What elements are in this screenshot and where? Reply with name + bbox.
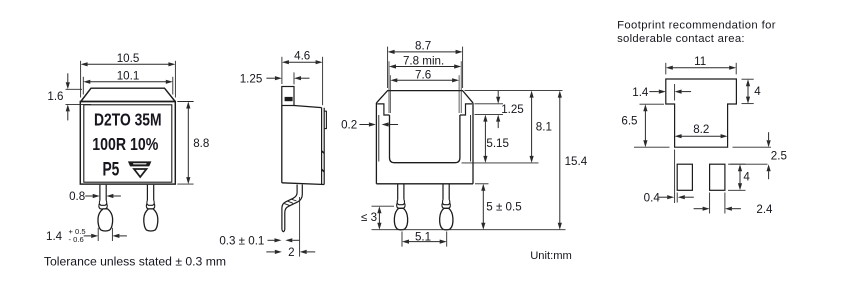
svg-text:15.4: 15.4 — [565, 155, 588, 168]
back left lead — [397, 185, 399, 200]
dimension 2.4 — [709, 193, 711, 214]
svg-text:D2TO 35M: D2TO 35M — [94, 109, 162, 129]
svg-text:8.1: 8.1 — [536, 120, 552, 133]
svg-text:P5: P5 — [102, 159, 119, 181]
svg-text:5.15: 5.15 — [486, 137, 509, 150]
svg-text:1.25: 1.25 — [240, 72, 263, 85]
back left lead crimp — [397, 200, 404, 205]
front view: tab bottom edge — [81, 101, 175, 103]
svg-text:1.4: 1.4 — [46, 230, 63, 243]
front view: body inner rectangle (10.1 wide) — [84, 105, 172, 182]
svg-text:5 ± 0.5: 5 ± 0.5 — [486, 201, 521, 214]
cavity bottom extension line — [462, 162, 539, 164]
body bottom right extension line — [475, 183, 489, 185]
side view: right edge tick marks — [322, 151, 325, 153]
dimension 11 — [665, 63, 667, 75]
back view: left 0.2 wall line — [378, 115, 380, 162]
dimension 2 side — [275, 250, 282, 254]
dimension 5 ± 0.5 — [482, 190, 484, 224]
front right lead crimp — [147, 200, 154, 205]
dimension 0.4 — [674, 150, 676, 204]
side view: back tab protrusion — [324, 111, 326, 128]
front view: body outer rectangle (10.5 wide) — [80, 102, 175, 185]
side view: tab dark mark — [285, 97, 293, 101]
dimension 4 footprint tab — [742, 78, 754, 80]
svg-text:0.8: 0.8 — [69, 190, 85, 203]
svg-text:10.1: 10.1 — [117, 69, 140, 82]
back view: body outline — [376, 91, 473, 103]
dimension 10.5 — [80, 61, 82, 98]
dimension 0.8 — [93, 194, 100, 198]
dimension 4.6 — [281, 57, 283, 84]
dimension 2.5 — [733, 146, 772, 148]
svg-text:11: 11 — [694, 55, 706, 68]
svg-text:5.1: 5.1 — [415, 230, 431, 243]
svg-text:7.8 min.: 7.8 min. — [403, 54, 444, 67]
back view right side extension lines — [465, 90, 563, 92]
svg-text:100R 10%: 100R 10% — [92, 134, 158, 154]
svg-text:2.4: 2.4 — [756, 203, 773, 216]
Vishay logo bar — [128, 161, 151, 166]
side view: lead tip — [282, 230, 285, 232]
dimension 5.15 — [484, 121, 486, 157]
svg-text:solderable contact area:: solderable contact area: — [617, 33, 745, 45]
svg-text:0.2: 0.2 — [341, 119, 357, 132]
svg-text:8.7: 8.7 — [415, 40, 431, 53]
front view: metal tab trapezoid — [81, 88, 175, 101]
svg-text:0.4: 0.4 — [644, 191, 661, 204]
back right lead crimp — [442, 200, 449, 205]
dimension 8.2 — [681, 135, 722, 137]
svg-text:6.5: 6.5 — [621, 115, 637, 128]
svg-text:4: 4 — [754, 85, 761, 98]
svg-text:Footprint recommendation for: Footprint recommendation for — [617, 20, 776, 32]
dimension 15.4 — [559, 97, 561, 224]
dimension 1.25 back — [496, 97, 500, 104]
back view: right 0.2 wall line — [470, 115, 472, 162]
svg-text:0.3 ± 0.1: 0.3 ± 0.1 — [219, 234, 264, 247]
front right lead — [146, 185, 148, 201]
dimension 10.1 — [82, 77, 84, 95]
side view: lead bend hatching — [292, 199, 297, 201]
blob bottom extension line — [372, 229, 566, 231]
dimension 1.4 +0.5/-0.6 — [97, 228, 99, 241]
svg-text:2: 2 — [288, 246, 294, 259]
footprint outline — [666, 79, 737, 147]
blob top extension line (for <=3) — [372, 205, 395, 207]
back view: left step groove — [377, 104, 389, 115]
svg-text:8.8: 8.8 — [193, 137, 209, 150]
dimension 0.2 — [369, 122, 376, 126]
back right lead solder blob — [440, 208, 453, 230]
dimension 7.8 min. — [388, 61, 390, 113]
svg-text:4.6: 4.6 — [294, 50, 310, 63]
svg-text:Unit:mm: Unit:mm — [530, 250, 572, 262]
side view: top tab — [282, 87, 294, 106]
back view: inner cavity — [390, 115, 460, 163]
side view: lead bend — [285, 185, 303, 230]
dimension 7.6 — [389, 75, 391, 113]
front left lead — [99, 185, 101, 201]
Vishay logo triangle — [132, 168, 148, 178]
svg-text:- 0.6: - 0.6 — [69, 235, 84, 244]
svg-text:1.6: 1.6 — [47, 90, 63, 103]
side view: lead plane extension line — [299, 197, 301, 257]
dimension <= 3 — [378, 212, 380, 224]
svg-text:4: 4 — [743, 171, 750, 184]
dimension 0.3 ± 0.1 — [275, 238, 282, 242]
dimension 8.1 — [531, 97, 533, 157]
svg-text:1.4: 1.4 — [632, 86, 649, 99]
front left lead crimp — [99, 200, 106, 205]
dimension 1.6 — [66, 88, 83, 90]
front right lead solder blob — [144, 209, 158, 231]
back left lead solder blob — [394, 208, 407, 230]
footprint right pad — [710, 164, 725, 190]
dimension 6.5 — [640, 103, 665, 105]
back right lead — [442, 185, 444, 200]
svg-text:10.5: 10.5 — [117, 52, 140, 65]
svg-text:≤ 3: ≤ 3 — [361, 211, 377, 224]
front left lead solder blob — [98, 209, 113, 231]
back view: right step groove — [460, 104, 472, 115]
svg-text:8.2: 8.2 — [693, 123, 709, 136]
dimension 8.8 — [177, 101, 193, 103]
svg-text:2.5: 2.5 — [771, 149, 787, 162]
dimension 4 pads — [728, 163, 746, 165]
svg-text:7.6: 7.6 — [415, 68, 431, 81]
dimension 5.1 — [401, 232, 403, 247]
svg-text:Tolerance unless stated ± 0.3: Tolerance unless stated ± 0.3 mm — [44, 255, 226, 269]
svg-text:1.25: 1.25 — [501, 103, 524, 116]
side view: body — [281, 106, 283, 183]
dimension 1.25 side — [293, 72, 295, 84]
dimension 8.7 — [387, 47, 389, 88]
dimension 1.4 footprint — [674, 84, 676, 101]
footprint left pad — [677, 164, 692, 190]
